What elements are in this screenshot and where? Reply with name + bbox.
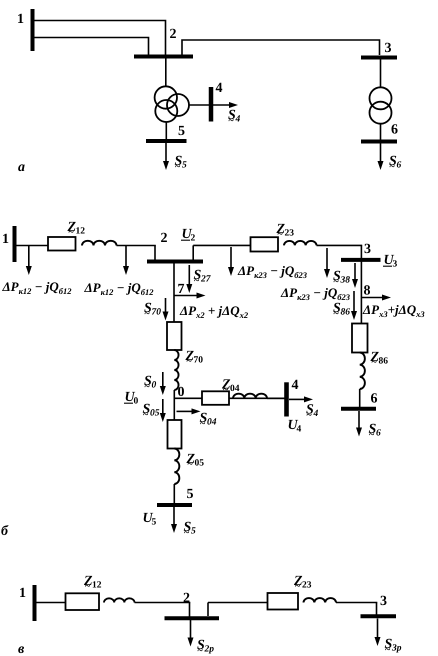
svg-text:2: 2 xyxy=(170,27,177,42)
svg-text:ΔPк23 − jQб23: ΔPк23 − jQб23 xyxy=(280,285,351,302)
svg-text:в: в xyxy=(18,642,25,656)
svg-text:~: ~ xyxy=(369,430,375,441)
svg-text:6: 6 xyxy=(397,161,402,171)
svg-text:~: ~ xyxy=(69,227,75,238)
svg-text:5: 5 xyxy=(187,487,194,502)
svg-text:~: ~ xyxy=(175,162,181,173)
svg-text:2: 2 xyxy=(183,591,190,606)
svg-text:27: 27 xyxy=(200,275,212,285)
svg-text:~: ~ xyxy=(188,459,194,470)
svg-text:4: 4 xyxy=(292,378,299,393)
svg-text:~: ~ xyxy=(223,385,229,396)
svg-text:3р: 3р xyxy=(391,644,402,654)
svg-text:~: ~ xyxy=(390,162,396,173)
svg-text:70: 70 xyxy=(152,308,162,318)
svg-text:05: 05 xyxy=(195,459,205,469)
svg-text:86: 86 xyxy=(379,357,389,367)
svg-text:~: ~ xyxy=(385,645,391,656)
svg-text:3: 3 xyxy=(364,242,371,257)
svg-text:~: ~ xyxy=(184,528,190,539)
svg-text:05: 05 xyxy=(150,409,160,419)
svg-text:~: ~ xyxy=(85,581,91,592)
svg-text:ΔPх3+jΔQх3: ΔPх3+jΔQх3 xyxy=(362,302,425,319)
svg-text:2: 2 xyxy=(161,231,168,246)
svg-text:~: ~ xyxy=(145,382,151,393)
svg-text:4: 4 xyxy=(313,409,319,419)
svg-text:5: 5 xyxy=(182,161,187,171)
svg-text:~: ~ xyxy=(145,309,151,320)
svg-text:~: ~ xyxy=(229,116,235,127)
svg-text:ΔPк12 − jQб12: ΔPк12 − jQб12 xyxy=(84,280,155,297)
svg-text:~: ~ xyxy=(194,276,200,287)
svg-text:б: б xyxy=(1,524,9,539)
svg-text:3: 3 xyxy=(380,594,387,609)
svg-text:6: 6 xyxy=(376,429,381,439)
svg-text:6: 6 xyxy=(391,123,398,138)
svg-text:2: 2 xyxy=(191,234,196,244)
svg-text:04: 04 xyxy=(230,384,240,394)
svg-text:5: 5 xyxy=(191,527,196,537)
svg-text:12: 12 xyxy=(76,227,86,237)
svg-text:3: 3 xyxy=(393,260,398,270)
svg-text:~: ~ xyxy=(334,277,340,288)
svg-text:1: 1 xyxy=(19,586,26,601)
svg-text:0: 0 xyxy=(152,381,157,391)
svg-text:~: ~ xyxy=(200,419,206,430)
svg-text:23: 23 xyxy=(285,229,295,239)
svg-text:~: ~ xyxy=(187,356,193,367)
svg-text:38: 38 xyxy=(340,276,351,286)
svg-text:12: 12 xyxy=(92,581,102,591)
svg-text:5: 5 xyxy=(178,124,185,139)
svg-text:23: 23 xyxy=(302,581,312,591)
svg-text:2р: 2р xyxy=(204,645,215,655)
svg-text:5: 5 xyxy=(152,518,157,528)
svg-text:а: а xyxy=(18,160,25,175)
svg-text:4: 4 xyxy=(297,425,302,435)
svg-text:~: ~ xyxy=(143,410,149,421)
svg-text:4: 4 xyxy=(216,81,223,96)
svg-text:~: ~ xyxy=(278,229,284,240)
svg-text:8: 8 xyxy=(364,284,371,299)
svg-text:86: 86 xyxy=(341,308,351,318)
svg-text:0: 0 xyxy=(134,397,139,407)
svg-text:70: 70 xyxy=(194,356,204,366)
svg-text:~: ~ xyxy=(295,581,301,592)
svg-text:6: 6 xyxy=(371,392,378,407)
svg-text:~: ~ xyxy=(372,357,378,368)
svg-text:04: 04 xyxy=(207,418,217,428)
svg-text:~: ~ xyxy=(198,646,204,656)
svg-text:1: 1 xyxy=(17,12,24,27)
svg-text:1: 1 xyxy=(2,232,9,247)
svg-text:3: 3 xyxy=(385,41,392,56)
svg-text:~: ~ xyxy=(334,309,340,320)
svg-text:~: ~ xyxy=(307,410,313,421)
svg-text:4: 4 xyxy=(235,115,241,125)
svg-text:ΔPк12 − jQб12: ΔPк12 − jQб12 xyxy=(2,279,73,296)
svg-text:ΔPх2 + jΔQх2: ΔPх2 + jΔQх2 xyxy=(179,303,249,320)
svg-text:ΔPк23 − jQб23: ΔPк23 − jQб23 xyxy=(237,263,308,280)
